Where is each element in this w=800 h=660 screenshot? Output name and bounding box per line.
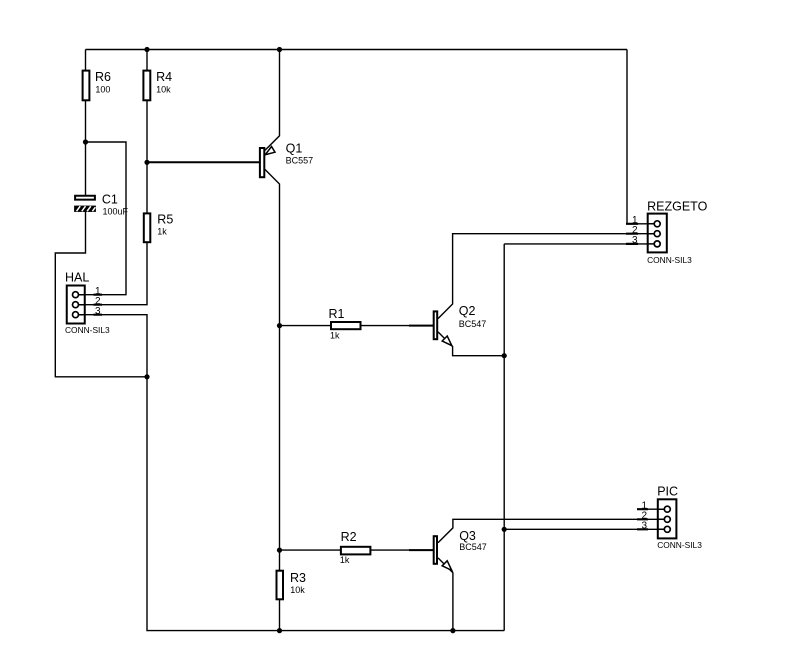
svg-text:C1: C1 <box>102 193 118 207</box>
node bottom rail Q3 emitter <box>450 628 455 633</box>
wire HAL pin3 to ground junction <box>76 315 148 377</box>
svg-text:R4: R4 <box>156 70 172 84</box>
svg-text:BC547: BC547 <box>459 319 487 329</box>
svg-text:R1: R1 <box>329 307 345 321</box>
svg-text:Q2: Q2 <box>459 304 476 318</box>
svg-text:R3: R3 <box>290 571 306 585</box>
resistor R5 <box>144 213 174 243</box>
wire branch junction to HAL pin1 <box>76 142 127 295</box>
wire R4 bottom through node to R5 top <box>146 101 148 214</box>
svg-text:1k: 1k <box>340 555 350 565</box>
wire Q3 emitter down to bottom rail <box>438 558 453 631</box>
resistor R1 <box>329 307 361 341</box>
transistor Q1 <box>260 142 313 178</box>
node top rail Q1 emitter <box>277 47 282 52</box>
wire Q3 base pin stub <box>409 549 433 551</box>
wire PIC pin1 stub <box>637 508 664 510</box>
wire R1 right to Q2 base <box>360 325 433 327</box>
connector PIC CONN-SIL3 <box>637 485 702 550</box>
wire Q1 collector long vertical to bottom rail <box>265 169 280 630</box>
svg-text:REZGETO: REZGETO <box>647 199 707 213</box>
capacitor C1 <box>74 193 128 217</box>
node left rail ground join <box>144 374 149 379</box>
node bottom rail R3 <box>277 628 282 633</box>
wire PIC pin3 from node <box>504 528 664 530</box>
resistor R2 <box>340 530 371 565</box>
wire Q1 base from node <box>147 161 259 163</box>
wire Q3 collector to PIC pin2 <box>438 519 664 543</box>
svg-text:1k: 1k <box>330 331 340 341</box>
node Q2 emitter REZGETO3 <box>502 353 507 358</box>
svg-text:Q1: Q1 <box>286 142 303 156</box>
node R4 R5 Q1 base <box>144 160 149 165</box>
connector HAL CONN-SIL3 <box>65 271 110 336</box>
node top rail R4 <box>144 47 149 52</box>
node PIC3 column <box>502 527 507 532</box>
svg-text:BC557: BC557 <box>286 156 314 166</box>
transistor Q2 <box>434 304 487 346</box>
wire left ground column down and bottom rail <box>147 377 504 631</box>
svg-text:R2: R2 <box>341 530 357 544</box>
svg-text:HAL: HAL <box>65 271 89 285</box>
svg-text:CONN-SIL3: CONN-SIL3 <box>657 540 702 550</box>
svg-text:PIC: PIC <box>657 485 678 499</box>
svg-text:100: 100 <box>95 84 110 94</box>
wire Q2 emitter to node <box>438 332 504 356</box>
wire Q2 collector up to REZGETO pin2 <box>438 234 654 319</box>
svg-text:Q3: Q3 <box>459 529 476 543</box>
wire top power rail <box>86 49 628 51</box>
svg-text:CONN-SIL3: CONN-SIL3 <box>647 255 692 265</box>
svg-text:10k: 10k <box>156 84 171 94</box>
node collector column R2 <box>277 548 282 553</box>
wire R2 left from collector column <box>280 549 342 551</box>
wire Q2 base pin stub <box>409 325 433 327</box>
transistor Q3 <box>434 529 487 570</box>
wire R6 top stub <box>85 50 87 71</box>
wire REZGETO pin3 column down through nodes to bottom rail <box>504 244 654 631</box>
wire C1 bottom to left rail down to ground run <box>55 212 147 377</box>
resistor R6 <box>83 70 111 100</box>
wire R6 bottom down to C1 <box>85 101 87 196</box>
svg-text:R5: R5 <box>157 213 173 227</box>
resistor R4 <box>143 70 172 100</box>
node collector column R1 <box>277 323 282 328</box>
node R6 C1 HAL1 branch <box>83 139 88 144</box>
wire REZGETO pin1 drop from top rail <box>627 50 654 224</box>
wire R5 bottom to HAL pin2 <box>76 243 148 305</box>
wire R2 right to Q3 base <box>370 549 433 551</box>
wire Q1 emitter from top rail <box>265 50 280 151</box>
svg-text:R6: R6 <box>95 70 111 84</box>
connector REZGETO CONN-SIL3 <box>626 199 708 265</box>
svg-text:BC547: BC547 <box>459 542 487 552</box>
resistor R3 <box>277 571 307 600</box>
svg-text:100uF: 100uF <box>103 206 129 216</box>
wire R4 top stub <box>146 50 148 71</box>
wire R1 left from collector column <box>280 325 332 327</box>
svg-text:CONN-SIL3: CONN-SIL3 <box>65 325 110 335</box>
svg-text:1k: 1k <box>157 226 167 236</box>
svg-text:10k: 10k <box>290 585 305 595</box>
